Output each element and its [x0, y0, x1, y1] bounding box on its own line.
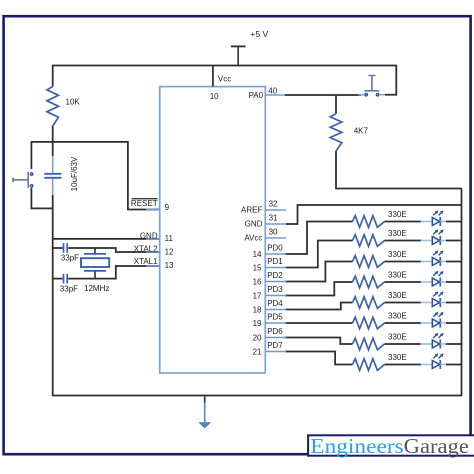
- svg-text:XTAL1: XTAL1: [134, 257, 158, 266]
- resistor 330E row6: [353, 317, 385, 329]
- svg-text:16: 16: [253, 278, 262, 287]
- svg-text:PD3: PD3: [267, 285, 283, 294]
- LED D5: [421, 291, 447, 307]
- svg-text:PD7: PD7: [267, 341, 283, 350]
- svg-text:PD0: PD0: [267, 244, 283, 253]
- wire resistor to LED row2: [385, 240, 422, 242]
- resistor 4K7: [330, 114, 342, 151]
- svg-text:Vcc: Vcc: [218, 75, 231, 84]
- wire resistor to LED row7: [385, 343, 422, 345]
- wire PD3 to LED row: [285, 282, 353, 296]
- LED D4: [421, 271, 447, 287]
- svg-text:21: 21: [253, 348, 262, 357]
- LED D3: [421, 250, 447, 266]
- svg-text:PD6: PD6: [267, 327, 283, 336]
- svg-text:12MHz: 12MHz: [84, 284, 109, 293]
- wire ground bus right: [461, 189, 463, 397]
- svg-text:GND: GND: [245, 220, 263, 229]
- capacitor 33pF lower: [64, 274, 68, 284]
- wire reset to pin9: [128, 141, 161, 209]
- svg-text:20: 20: [253, 334, 262, 343]
- EngineersGarage logo: [308, 434, 474, 458]
- svg-text:EngineersGarage: EngineersGarage: [310, 434, 469, 458]
- wire resistor to LED row5: [385, 302, 422, 304]
- wire resistor to LED row1: [385, 221, 422, 223]
- wire 4K7 top: [335, 95, 337, 114]
- wire 10K bottom: [52, 126, 54, 143]
- svg-text:PD2: PD2: [267, 271, 283, 280]
- wire button to rail: [385, 65, 396, 95]
- svg-text:330E: 330E: [388, 250, 407, 259]
- resistor 330E row7: [353, 338, 385, 350]
- crystal X1 12MHz: [81, 247, 109, 279]
- svg-text:+5 V: +5 V: [250, 29, 268, 39]
- IC ATmega body: [160, 87, 266, 373]
- wire Vcc pin10: [212, 66, 214, 87]
- LED D6: [421, 312, 447, 328]
- wire button branch top: [30, 141, 32, 169]
- svg-text:10: 10: [210, 92, 219, 101]
- svg-text:30: 30: [269, 227, 278, 236]
- pin stub XTAL2 12: [146, 251, 160, 253]
- wire 10K top: [52, 65, 54, 87]
- svg-text:9: 9: [165, 203, 170, 212]
- +5V power symbol: [231, 46, 246, 65]
- wire XTAL2 to pin12: [68, 248, 160, 252]
- svg-text:13: 13: [165, 261, 174, 270]
- wire resistor to LED row3: [385, 261, 422, 263]
- wire LED to bus row7: [446, 343, 462, 345]
- wire cap top lead: [52, 142, 54, 156]
- svg-text:17: 17: [253, 292, 262, 301]
- wire LED to bus row8: [446, 364, 462, 366]
- svg-text:10uF/63V: 10uF/63V: [70, 156, 79, 191]
- wire reset top: [31, 141, 128, 143]
- svg-text:330E: 330E: [388, 229, 407, 238]
- pin stub PD0 14: [265, 253, 286, 255]
- svg-text:330E: 330E: [388, 291, 407, 300]
- wire PD7 to LED row: [285, 352, 353, 365]
- pin stub PD2 16: [265, 281, 286, 283]
- svg-text:330E: 330E: [388, 210, 407, 219]
- wire LED to bus row4: [446, 281, 462, 283]
- svg-text:4K7: 4K7: [354, 127, 369, 136]
- wire LED to bus row5: [446, 302, 462, 304]
- svg-text:PD4: PD4: [267, 299, 283, 308]
- wire reset bottom: [31, 207, 54, 209]
- svg-text:330E: 330E: [388, 353, 407, 362]
- wire LED to bus row6: [446, 322, 462, 324]
- svg-text:RESET: RESET: [131, 199, 158, 208]
- wire PD6 to LED row: [285, 338, 353, 345]
- wire PD1 to LED row: [285, 241, 353, 268]
- pin stub PD5 19: [265, 322, 286, 324]
- wire resistor to LED row6: [385, 322, 422, 324]
- LED D7: [421, 333, 447, 349]
- svg-text:14: 14: [253, 250, 262, 259]
- resistor 10K: [47, 87, 59, 127]
- capacitor 33pF upper: [64, 243, 68, 253]
- svg-text:18: 18: [253, 306, 262, 315]
- svg-text:33pF: 33pF: [61, 253, 79, 262]
- svg-text:12: 12: [165, 248, 174, 257]
- svg-text:330E: 330E: [388, 311, 407, 320]
- wire LED to bus row1: [446, 221, 462, 223]
- wire resistor to LED row8: [385, 364, 422, 366]
- pin stub PD3 17: [265, 295, 286, 297]
- capacitor 10uF/63V: [44, 155, 61, 196]
- resistor 330E row3: [353, 256, 385, 268]
- wire left ground vertical: [52, 208, 54, 396]
- svg-text:15: 15: [253, 264, 262, 273]
- wire cap bottom lead: [52, 195, 54, 209]
- wire XTAL1 lower: [53, 278, 63, 280]
- wire +5V rail: [53, 65, 397, 67]
- pin stub PD1 15: [265, 267, 286, 269]
- svg-text:11: 11: [165, 234, 174, 243]
- pin stub AVcc 30: [265, 237, 286, 239]
- LED D1: [421, 210, 447, 226]
- wire XTAL1 to pin13: [68, 266, 160, 279]
- svg-text:XTAL2: XTAL2: [134, 245, 158, 254]
- svg-text:PD1: PD1: [267, 257, 283, 266]
- svg-text:PA0: PA0: [249, 91, 264, 100]
- svg-text:GND: GND: [140, 231, 158, 240]
- resistor 330E row1: [353, 216, 385, 228]
- ground symbol: [199, 396, 210, 428]
- svg-text:33pF: 33pF: [60, 285, 78, 294]
- pin stub XTAL1 13: [146, 265, 160, 267]
- pin stub GND 31: [265, 223, 286, 225]
- push button PA0: [359, 76, 386, 96]
- wire 4K7 to ground bus: [336, 151, 462, 189]
- resistor 330E row8: [353, 359, 385, 371]
- svg-text:PD5: PD5: [267, 313, 283, 322]
- label RESET with overline: [131, 199, 158, 208]
- LED D8: [421, 353, 447, 369]
- wire PD2 to LED row: [285, 262, 353, 282]
- svg-text:19: 19: [253, 319, 262, 328]
- svg-text:31: 31: [269, 213, 278, 222]
- wire ground rail: [53, 395, 462, 397]
- LED D2: [421, 229, 447, 245]
- pin stub PD6 20: [265, 337, 286, 339]
- pin stub GND 11: [146, 238, 160, 240]
- pin stub RESET 9: [146, 209, 160, 211]
- svg-text:32: 32: [269, 199, 278, 208]
- wire PD5 to LED row: [285, 322, 353, 324]
- wire GND31 to ground bus: [286, 205, 462, 224]
- pin stub AREF 32: [265, 209, 286, 211]
- wire PD0 to LED row: [285, 222, 353, 255]
- resistor 330E row4: [353, 276, 385, 288]
- wire GND pin11: [53, 238, 161, 240]
- svg-text:10K: 10K: [66, 98, 81, 107]
- wire PA0 to button: [285, 94, 361, 96]
- svg-text:330E: 330E: [388, 270, 407, 279]
- wire button branch bottom: [30, 188, 32, 209]
- pin stub PD7 21: [265, 351, 286, 353]
- svg-text:330E: 330E: [388, 332, 407, 341]
- pin stub PD4 18: [265, 309, 286, 311]
- svg-text:AVcc: AVcc: [244, 234, 262, 243]
- wire resistor to LED row4: [385, 281, 422, 283]
- pin stub PA0 40: [265, 94, 286, 96]
- svg-text:40: 40: [268, 86, 277, 95]
- resistor 330E row2: [353, 235, 385, 247]
- wire LED to bus row2: [446, 240, 462, 242]
- wire XTAL2 upper: [53, 247, 63, 249]
- svg-text:AREF: AREF: [241, 206, 262, 215]
- wire PD4 to LED row: [285, 303, 353, 310]
- push button reset: [13, 172, 33, 188]
- resistor 330E row5: [353, 297, 385, 309]
- wire LED to bus row3: [446, 261, 462, 263]
